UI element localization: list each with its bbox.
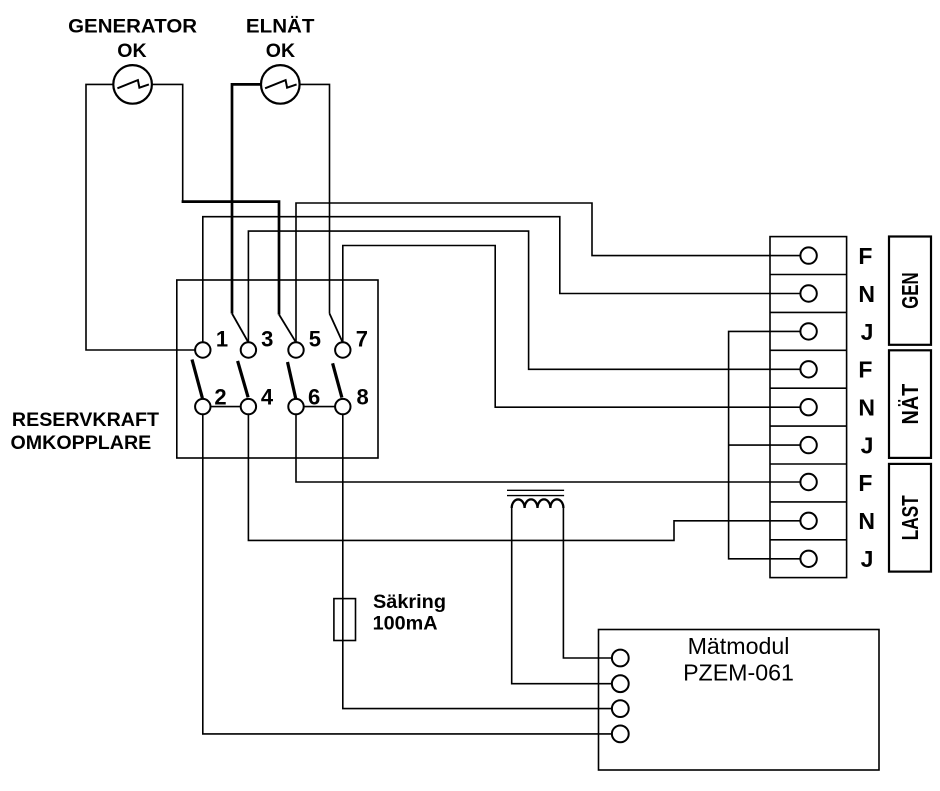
svg-text:J: J (861, 319, 874, 345)
wire thick feed to switch contact 5 (182, 202, 279, 315)
indicator lamp HL2 ELNÄT OK (261, 65, 300, 104)
svg-text:J: J (861, 546, 874, 572)
svg-text:3: 3 (261, 326, 273, 351)
PZEM terminal 2 (612, 675, 629, 692)
current transformer T1 winding (512, 499, 564, 508)
terminal LAST J (800, 551, 816, 567)
PZEM terminal 4 (612, 726, 629, 743)
svg-text:J: J (861, 433, 874, 459)
svg-text:4: 4 (261, 384, 274, 409)
group label box GEN (889, 237, 931, 345)
measurement module box Mätmodul PZEM-061 (599, 630, 880, 771)
wire lamp HL1 right side down (152, 84, 183, 201)
wire lamp HL1 left side down to switch contact 1 (86, 84, 195, 350)
wire contact 2 down to PZEM terminal 4 (203, 414, 612, 734)
svg-text:7: 7 (356, 326, 368, 351)
svg-text:PZEM-061: PZEM-061 (683, 659, 794, 685)
svg-text:Mätmodul: Mätmodul (688, 633, 790, 659)
svg-text:F: F (858, 357, 872, 383)
terminal GEN J (800, 323, 816, 339)
wire switch contact 3 up to terminal NÄT F (248, 231, 800, 369)
switch pole 7-8 (333, 326, 369, 414)
svg-text:100mA: 100mA (373, 613, 438, 634)
wire switch contact 1 up to terminal GEN N (203, 217, 801, 343)
PZEM terminal 1 (612, 650, 629, 667)
label ELNÄT OK (246, 17, 315, 63)
switch pole 1-2 (192, 326, 228, 414)
svg-text:NÄT: NÄT (897, 384, 923, 425)
svg-text:OMKOPPLARE: OMKOPPLARE (11, 433, 152, 454)
svg-text:F: F (858, 243, 872, 269)
label Säkring 100mA (373, 592, 446, 634)
terminal LAST N (800, 513, 816, 529)
svg-text:LAST: LAST (897, 495, 923, 540)
svg-text:8: 8 (357, 384, 369, 409)
wire jord bus linking terminals GEN J, NÄT J, LAST J (729, 331, 801, 558)
svg-text:GEN: GEN (897, 272, 923, 309)
wire lamp HL2 left side thick feed to switch contact 3 (232, 84, 261, 313)
svg-text:1: 1 (216, 326, 228, 351)
svg-text:GENERATOR: GENERATOR (68, 17, 197, 38)
svg-text:F: F (858, 470, 872, 496)
group label box LAST (889, 464, 931, 572)
terminal NÄT F (800, 361, 816, 377)
indicator lamp HL1 GENERATOR OK (113, 65, 152, 104)
switch pole 3-4 (238, 326, 274, 414)
wire transformer left end down to PZEM terminal 2 (512, 507, 612, 684)
wire transformer right end down to PZEM terminal 1 (563, 507, 612, 658)
group label box NÄT (889, 350, 931, 458)
wire switch contact 5 up to terminal GEN F (296, 203, 800, 342)
current transformer T1 core (507, 490, 564, 495)
svg-text:N: N (858, 395, 875, 421)
svg-text:OK: OK (117, 41, 147, 62)
wire lamp HL2 right side feed to switch contact 7 (300, 84, 330, 313)
switch pole 5-6 (288, 326, 321, 414)
terminal NÄT N (800, 399, 816, 415)
svg-text:OK: OK (266, 41, 296, 62)
svg-text:6: 6 (308, 384, 320, 409)
svg-text:Säkring: Säkring (373, 592, 446, 613)
svg-text:ELNÄT: ELNÄT (246, 17, 315, 38)
wire switch contact 7 up to terminal NÄT N (343, 246, 801, 408)
terminal NÄT J (800, 437, 816, 453)
terminal GEN F (800, 247, 816, 263)
wire contact 8 down through fuse to PZEM terminal 3 (343, 414, 612, 708)
svg-text:2: 2 (214, 384, 226, 409)
svg-text:N: N (858, 281, 875, 307)
label RESERVKRAFT OMKOPPLARE (11, 410, 160, 454)
terminal GEN N (800, 285, 816, 301)
label GENERATOR OK (68, 17, 197, 63)
svg-text:RESERVKRAFT: RESERVKRAFT (12, 410, 160, 431)
wire contact 6 down to terminal LAST F (296, 414, 800, 482)
fuse F1 (334, 599, 356, 641)
wire contact 4 down to terminal LAST N (248, 414, 800, 540)
wire link contact 2 to contact 4 (211, 406, 241, 408)
terminal strip (770, 237, 847, 578)
switch box RESERVKRAFT OMKOPPLARE (177, 280, 378, 458)
svg-text:5: 5 (309, 326, 321, 351)
wire link contact 6 to contact 8 (304, 406, 335, 408)
svg-text:N: N (858, 508, 875, 534)
terminal LAST F (800, 474, 816, 490)
PZEM terminal 3 (612, 700, 629, 717)
